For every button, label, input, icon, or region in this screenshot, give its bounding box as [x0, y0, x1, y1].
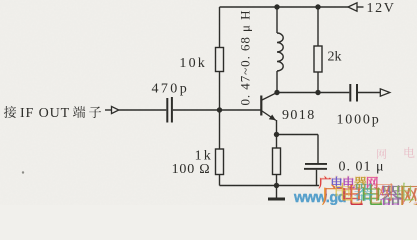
12V supply arrow: [348, 3, 357, 11]
label input terminal: jie IF OUT duanzi: [4, 106, 16, 118]
wire C1 to base: [173, 109, 261, 111]
resistor R4 emitter: [273, 148, 281, 175]
wire 1k to ground bus: [219, 175, 221, 186]
wire emitter to R4: [276, 135, 278, 149]
wire ground bus: [220, 185, 320, 187]
output arrow: [380, 89, 390, 96]
wire C3 to output arrow: [358, 92, 380, 94]
resistor R1 10k: [216, 48, 224, 72]
node emitter junction: [274, 132, 279, 137]
wire input arrow to C1: [119, 109, 167, 111]
wire 10k bottom to base node: [219, 72, 221, 111]
input arrow: [105, 109, 112, 111]
watermark row mid colors: [318, 176, 330, 188]
transistor Q1 collector lead: [262, 93, 277, 101]
transistor Q1 base bar: [260, 96, 262, 116]
ground: [276, 186, 278, 199]
wire emitter to C4: [277, 134, 319, 136]
paper speck: [22, 171, 24, 173]
node base junction: [217, 107, 222, 112]
resistor R3 1k 100ohm: [216, 149, 224, 175]
faint watermark fragments: [377, 147, 414, 159]
node ground junction: [274, 183, 279, 188]
inductor L1: [276, 7, 278, 33]
node 2k bottom junction: [315, 90, 320, 95]
capacitor C1 470p: [166, 98, 168, 123]
capacitor C3 1000p: [349, 84, 351, 102]
wire 2k bottom: [317, 72, 319, 93]
transistor Q1 emitter lead with arrow: [262, 111, 276, 120]
node inductor top junction: [274, 4, 279, 9]
watermark big colorful chars row: [322, 185, 343, 206]
wire collector rail: [277, 92, 349, 94]
wire 10k branch top: [219, 7, 221, 48]
capacitor C4 0.01u: [305, 163, 327, 165]
node 2k top junction: [315, 4, 320, 9]
wire top supply rail: [220, 6, 349, 8]
node collector junction: [274, 90, 279, 95]
watermark overlay colorful chars: [336, 183, 353, 201]
wire R4 to ground bus: [276, 175, 278, 186]
wire 2k branch: [317, 7, 319, 46]
wire base node to 1k: [219, 110, 221, 149]
resistor R2 2k: [314, 46, 322, 72]
